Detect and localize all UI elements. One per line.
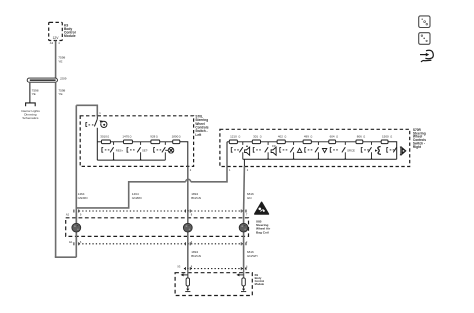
switch cancel [154,148,155,153]
svg-text:1210: 1210 [230,134,237,138]
svg-text:Ω: Ω [130,135,132,138]
wire / tap 2 [132,141,151,143]
svg-text:Left: Left [195,133,202,137]
svg-text:Ω: Ω [390,135,392,138]
svg-text:BN/GN: BN/GN [191,196,201,200]
svg-text:928: 928 [150,134,155,138]
resistor 402 ohm [261,141,278,143]
resistor 604 ohm [311,141,329,143]
seek up triangle icon [297,148,301,152]
module K9 Body Control Module (bottom) [175,273,252,296]
wire 1464 GN/RD from S70R pin 1 to feed tee [191,166,227,181]
cruise on/off switch inside S70L [96,116,98,119]
wire hop over 1894 [186,179,191,182]
svg-text:Ω: Ω [179,135,181,138]
resistor 806 ohm [336,141,356,143]
svg-text:GN/RD: GN/RD [78,196,89,200]
air bag warning triangle [255,202,269,214]
svg-text:Schematics: Schematics [22,116,38,120]
indicator lamp [165,149,168,151]
resistor 1500 ohm [363,141,381,143]
resistor 1800 ohm [173,140,180,144]
svg-text:Ω: Ω [311,135,313,138]
off-page connector to Interior Lights Dimming Schematics [26,103,36,106]
pull-up resistor [186,278,189,286]
common bus S70R [243,158,397,160]
svg-text:Module: Module [255,282,265,286]
svg-text:X3: X3 [177,265,181,269]
resistor 3010 ohm [97,141,101,143]
svg-text:Ω: Ω [285,135,287,138]
svg-text:Right: Right [413,145,422,149]
BCM input circuit at x=187.8 [187,269,189,278]
wire / tap 3 [160,141,173,143]
svg-text:RES+: RES+ [116,148,124,152]
resistor 499 ohm [285,141,303,143]
switch voice [361,148,362,153]
svg-text:402: 402 [278,134,283,138]
wire 6816 GN/WH to BCM [243,244,245,269]
svg-text:499: 499 [304,134,309,138]
svg-text:J209: J209 [60,77,67,81]
switch RES+ [102,148,103,153]
common bus S70L [97,159,165,161]
wire jumper at bottom of 7598 run [56,255,77,258]
svg-text:Ω: Ω [336,135,338,138]
switch source [330,148,331,153]
pins of X85 [73,210,75,213]
coil element 3 [243,211,245,244]
switch volume up [253,148,254,153]
svg-text:Ω: Ω [239,135,241,138]
switch seek down [305,148,306,153]
wire from cruise switch to resistor chain [96,128,98,160]
module X85 Steering Wheel Air Bag Coil [66,218,249,237]
switch SET- [127,148,128,153]
resistor 301 ohm [237,141,252,143]
wire 6816 GN from S70R pin 2 to coil [243,166,246,211]
internal ground [187,286,189,289]
switch module S70R Steering Wheel Controls Switch - Right [220,129,410,166]
wire 7598 YE below J209 [55,82,57,257]
svg-text:604: 604 [330,134,335,138]
BCM input circuit at x=243.6 [243,269,245,278]
wire 7598 YE branch to interior lights [29,82,31,102]
svg-text:Ω: Ω [260,135,262,138]
svg-text:Bag Coil: Bag Coil [256,230,269,234]
wire 7598 YE from BCM to J209 [55,41,57,79]
wire 1464 GN/RD through air bag coil up to S70L pin 1 [75,211,77,257]
connector row (top) of air bag coil [79,210,247,212]
connector row (bottom) of air bag coil [79,243,246,245]
chain end drop [388,142,397,160]
internal ground [243,286,245,289]
resistor 1470 ohm [124,140,133,144]
switch seek up [280,148,281,153]
svg-text:3010: 3010 [100,134,107,138]
svg-text:1470: 1470 [122,134,129,138]
svg-text:SET-: SET- [142,148,148,152]
coil element 2 [187,211,189,244]
pin 2 drop [243,159,245,166]
svg-text:301: 301 [253,134,258,138]
switch phone [387,148,388,153]
svg-text:BN/GN: BN/GN [191,254,201,258]
svg-text:GN/RD: GN/RD [132,196,143,200]
svg-text:12V: 12V [53,36,60,40]
pin 1 rail [226,142,228,167]
svg-text:E1: E1 [69,240,73,244]
svg-text:Module: Module [64,34,76,38]
svg-text:1500: 1500 [382,134,389,138]
wire 1894 BN/GN to BCM [187,244,189,269]
svg-text:YE: YE [32,92,36,96]
note icon 2 [419,33,430,45]
svg-text:GN/WH: GN/WH [247,254,258,258]
svg-text:Ω: Ω [156,135,158,138]
pull-up resistor [242,278,245,286]
note icon 1 [419,16,430,28]
seek down triangle icon [322,149,326,153]
module K9 Body Control Module (top) [49,22,63,40]
svg-text:A2: A2 [66,213,70,217]
speaker icon 2 [271,147,276,155]
coil element 1 [75,211,77,244]
wire / tap 1 [110,141,123,143]
jump arrow icon [420,54,426,56]
svg-text:GN: GN [247,196,252,200]
chain end to pin 2 [180,142,188,167]
switch module S70L Steering Wheel Controls Switch - Left [80,116,193,167]
wire 1894 BN/GN from S70L pin 2 to coil [187,167,189,212]
resistor 1210 ohm [227,141,229,143]
splice J209 [27,78,57,82]
connector row X3 of K9 BCM [184,268,249,270]
phone icon [400,147,402,155]
svg-text:Ω: Ω [363,135,365,138]
resistor 928 ohm [151,140,160,144]
cruise control icon [101,121,107,127]
svg-text:SRCE: SRCE [347,148,355,152]
svg-text:A3: A3 [50,41,54,45]
speaker icon 1 [245,147,250,155]
switch volume mute [231,148,232,153]
svg-text:806: 806 [357,134,362,138]
svg-text:YE: YE [58,92,62,96]
svg-text:Ω: Ω [107,135,109,138]
svg-text:1800: 1800 [172,134,179,138]
voice recognition icon [378,147,381,155]
svg-text:YE: YE [58,59,62,63]
